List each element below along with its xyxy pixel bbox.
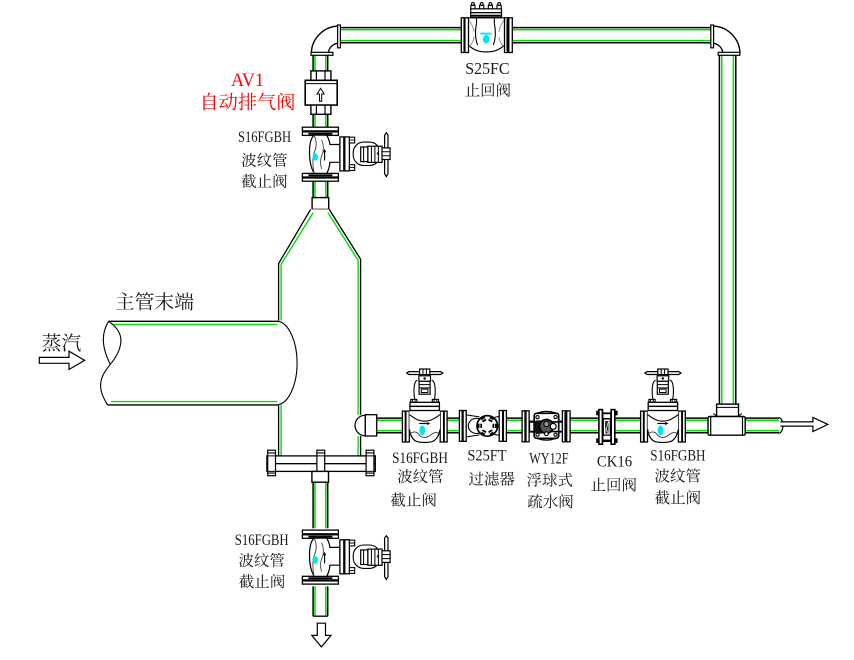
drain pipe end line [313, 615, 328, 617]
wire trap line seg3 [506, 418, 522, 433]
label label 截止阀 bottom [239, 574, 284, 588]
main steam pipe 主管末端 [101, 321, 279, 405]
reducer socket above pot [312, 198, 329, 210]
wire drain drop upper [313, 482, 328, 528]
wire top header right segment [512, 28, 711, 43]
svg-text:S16FGBH: S16FGBH [392, 450, 448, 467]
globe valve S16FGBH trap-line inlet [402, 369, 447, 443]
check valve S25FC [461, 3, 512, 53]
label label 自动排气阀 [203, 93, 294, 111]
strainer S25FT [459, 411, 506, 442]
pot outlet nozzle [355, 415, 377, 436]
label label 止回阀 top [465, 83, 510, 97]
pipe open end (right) [779, 418, 783, 434]
condensate pot / drip leg with cone reducer [279, 209, 361, 456]
check valve CK16 (wafer) [596, 410, 617, 445]
wire valve to reducer [313, 181, 328, 198]
drain socket below flange [312, 471, 329, 482]
wire top header left segment [340, 28, 461, 43]
label label 波纹管 bottom [239, 553, 284, 567]
label label 蒸汽 [42, 333, 80, 351]
globe valve S16FGBH trap-line outlet [641, 369, 686, 443]
wire right downcomer [719, 55, 735, 404]
label label 截止阀 col5 [655, 490, 700, 504]
pipe tee at downcomer / trap line junction [708, 404, 745, 435]
pot bottom flange pair with bolts [267, 450, 375, 476]
svg-text:S25FT: S25FT [467, 447, 506, 464]
svg-text:AV1: AV1 [231, 70, 264, 91]
wire trap line seg7 [745, 418, 779, 433]
label label 波纹管 upper [242, 153, 287, 167]
label label 浮球式 [527, 473, 572, 487]
label label 主管末端 [116, 292, 194, 310]
wire trap line seg1 [377, 418, 402, 433]
drain outlet arrow (down) [312, 623, 331, 647]
wire AV1 to valve [313, 114, 328, 127]
svg-text:WY12F: WY12F [529, 451, 568, 468]
wire riser elbow to AV1 [313, 55, 328, 71]
label label 波纹管 col1 [398, 469, 443, 483]
svg-text:S25FC: S25FC [465, 59, 509, 78]
wire drain drop lower [313, 586, 328, 616]
label label 止回阀 CK16 [591, 477, 636, 491]
automatic air vent valve AV1 [305, 71, 337, 114]
wire trap line seg2 [447, 418, 459, 433]
svg-text:S16FGBH: S16FGBH [650, 448, 706, 465]
label label 过滤器 [469, 471, 515, 485]
steam inlet flow arrow [39, 351, 84, 369]
label label 疏水阀 [528, 494, 573, 508]
wire trap line seg5 [615, 418, 641, 433]
label label 波纹管 col5 [655, 468, 700, 482]
globe valve S16FGBH upper (on AV1 riser) [302, 127, 390, 181]
condensate outlet arrow (right) [781, 417, 828, 431]
elbow top-left [311, 25, 340, 55]
wire trap line seg4 [570, 418, 599, 433]
wire trap line seg6 [685, 418, 708, 433]
elbow top-right [711, 25, 740, 55]
svg-text:CK16: CK16 [597, 454, 632, 471]
globe valve S16FGBH drain (bottom drop) [302, 530, 390, 584]
label label 截止阀 upper [242, 174, 287, 188]
svg-text:S16FGBH: S16FGBH [235, 532, 289, 549]
svg-text:S16FGBH: S16FGBH [238, 129, 291, 146]
label label 截止阀 col1 [391, 492, 436, 506]
float steam trap WY12F [522, 411, 570, 442]
